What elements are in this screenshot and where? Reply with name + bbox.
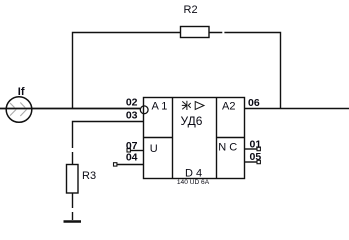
svg-text:06: 06 bbox=[248, 97, 260, 109]
svg-text:140 UD 6A: 140 UD 6A bbox=[177, 179, 210, 186]
svg-text:01: 01 bbox=[250, 139, 262, 151]
svg-text:R2: R2 bbox=[184, 4, 198, 16]
svg-text:02: 02 bbox=[126, 97, 138, 109]
svg-text:07: 07 bbox=[126, 140, 138, 152]
svg-text:R3: R3 bbox=[82, 170, 96, 182]
svg-text:УД6: УД6 bbox=[181, 114, 203, 128]
svg-text:03: 03 bbox=[126, 109, 138, 121]
svg-text:05: 05 bbox=[250, 151, 262, 163]
svg-text:D 4: D 4 bbox=[185, 168, 202, 180]
svg-text:If: If bbox=[18, 86, 25, 98]
svg-text:04: 04 bbox=[126, 152, 138, 164]
svg-text:N C: N C bbox=[218, 142, 237, 154]
svg-text:U: U bbox=[150, 143, 158, 155]
svg-text:A 1: A 1 bbox=[152, 101, 168, 113]
svg-text:A2: A2 bbox=[222, 101, 235, 113]
